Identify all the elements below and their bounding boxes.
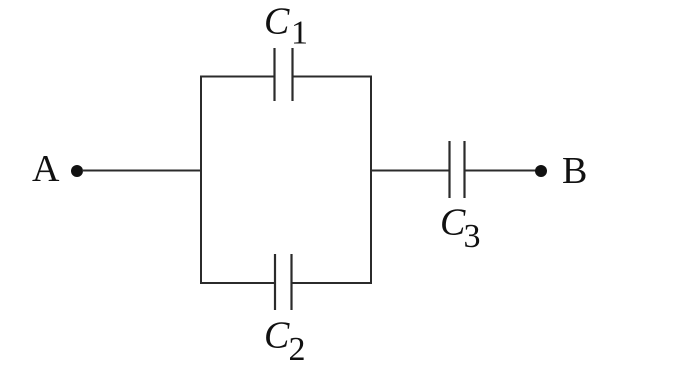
node B xyxy=(562,150,587,192)
svg-text:C: C xyxy=(264,315,290,357)
wire: left vertical branch of parallel loop xyxy=(200,76,202,285)
node A xyxy=(32,148,60,190)
wire: right junction to C3 xyxy=(370,170,450,172)
capacitor C2 xyxy=(275,254,292,310)
capacitor C1 xyxy=(275,48,293,101)
svg-text:3: 3 xyxy=(464,218,481,255)
wire: A terminal to left junction xyxy=(82,170,202,172)
svg-text:C: C xyxy=(264,1,290,43)
label C3 xyxy=(440,202,481,256)
svg-text:1: 1 xyxy=(291,15,308,52)
wire: C3 to B terminal xyxy=(465,170,538,172)
wire: bottom branch, right segment from C2 xyxy=(292,282,373,284)
node A terminal dot xyxy=(71,165,83,177)
svg-text:C: C xyxy=(440,202,466,244)
wire: bottom branch, left segment to C2 xyxy=(200,282,275,284)
svg-text:A: A xyxy=(32,148,60,190)
wire: top branch, right segment from C1 xyxy=(293,76,373,78)
label C1 xyxy=(264,1,308,52)
label C2 xyxy=(264,315,306,369)
node B terminal dot xyxy=(535,165,547,177)
svg-text:B: B xyxy=(562,150,587,192)
svg-text:2: 2 xyxy=(289,331,306,368)
wire: right vertical branch of parallel loop xyxy=(370,76,372,285)
wire: top branch, left segment to C1 xyxy=(200,76,275,78)
capacitor C3 xyxy=(450,141,465,198)
